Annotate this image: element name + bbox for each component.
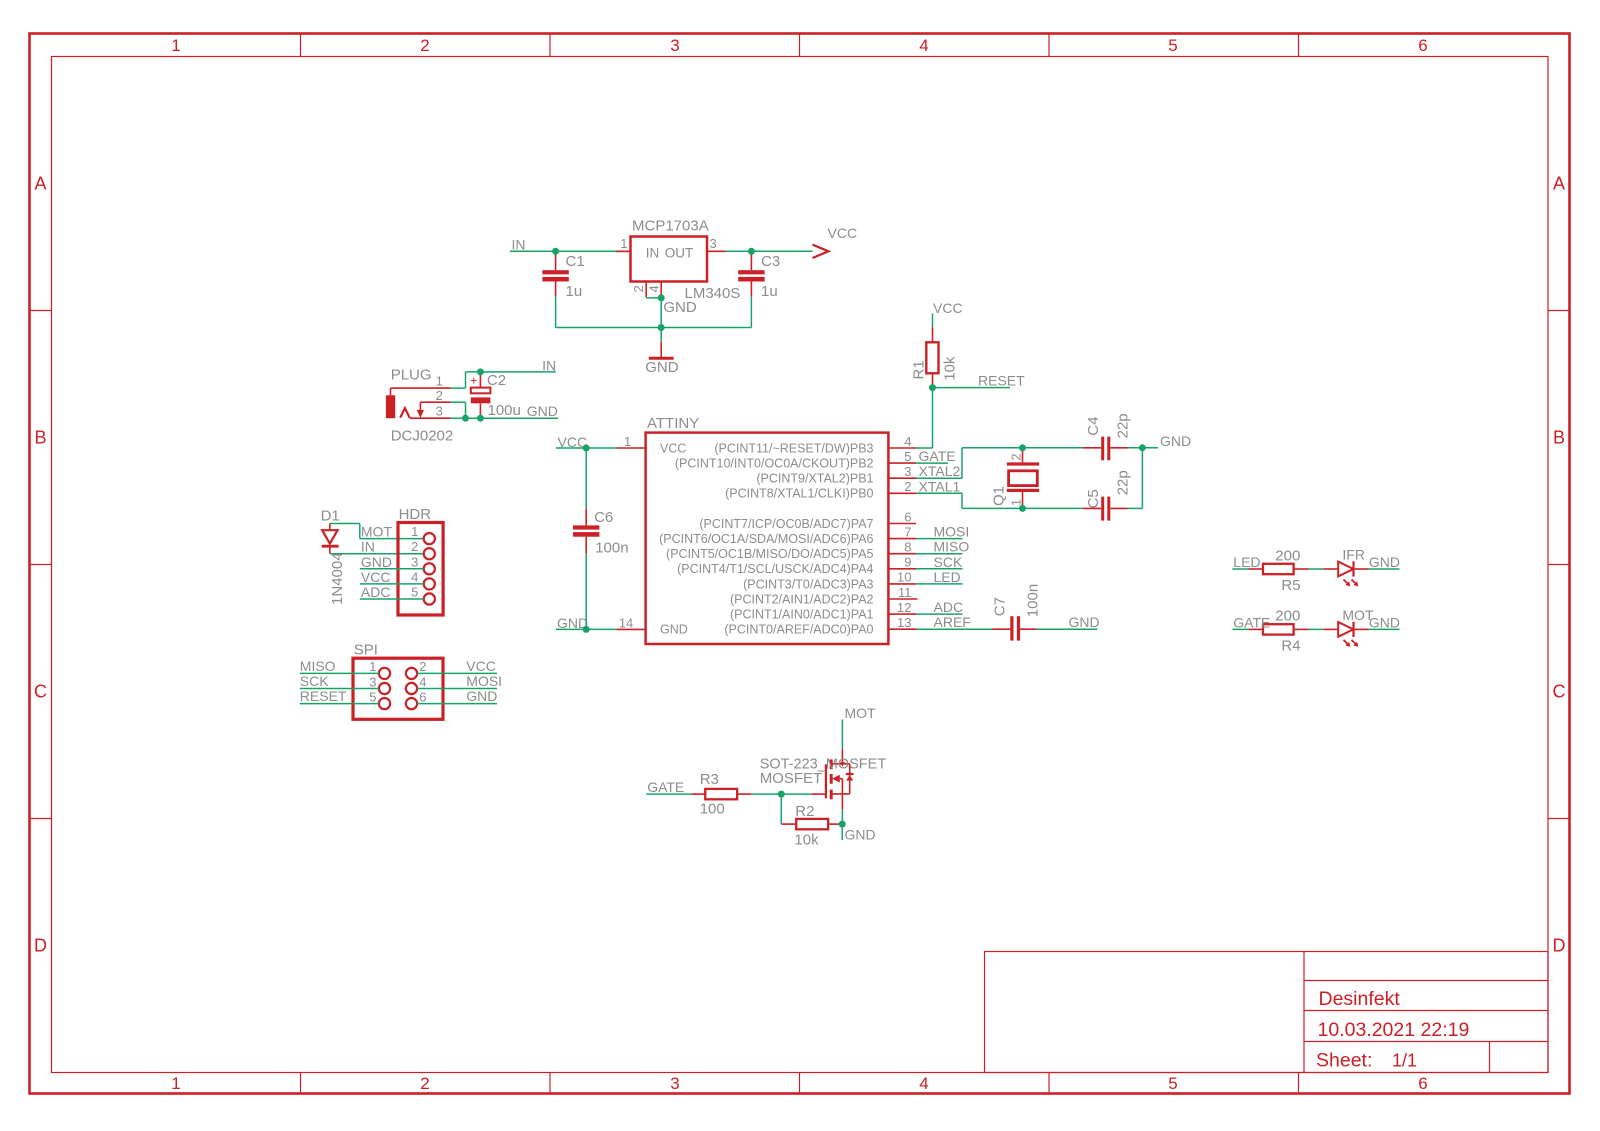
svg-text:(PCINT4/T1/SCL/USCK/ADC4)PA4: (PCINT4/T1/SCL/USCK/ADC4)PA4 bbox=[677, 562, 873, 576]
svg-text:6: 6 bbox=[1418, 36, 1427, 55]
svg-text:14: 14 bbox=[619, 615, 633, 630]
svg-text:(PCINT11/~RESET/DW)PB3: (PCINT11/~RESET/DW)PB3 bbox=[714, 441, 873, 455]
svg-text:3: 3 bbox=[670, 36, 679, 55]
svg-text:GND: GND bbox=[466, 688, 497, 704]
svg-text:6: 6 bbox=[419, 689, 426, 704]
svg-text:D: D bbox=[1553, 936, 1566, 956]
svg-text:2: 2 bbox=[411, 539, 418, 554]
svg-text:10k: 10k bbox=[941, 356, 958, 381]
svg-text:MOT: MOT bbox=[361, 524, 393, 540]
svg-text:MISO: MISO bbox=[934, 539, 970, 555]
svg-text:22p: 22p bbox=[1115, 413, 1132, 438]
svg-text:VCC: VCC bbox=[558, 434, 588, 450]
svg-text:GATE: GATE bbox=[647, 779, 684, 795]
svg-text:SPI: SPI bbox=[354, 642, 378, 659]
svg-text:(PCINT10/INT0/OC0A/CKOUT)PB2: (PCINT10/INT0/OC0A/CKOUT)PB2 bbox=[675, 457, 874, 471]
svg-text:C3: C3 bbox=[761, 253, 780, 270]
svg-text:10.03.2021 22:19: 10.03.2021 22:19 bbox=[1318, 1019, 1470, 1041]
svg-text:(PCINT7/ICP/OC0B/ADC7)PA7: (PCINT7/ICP/OC0B/ADC7)PA7 bbox=[699, 517, 873, 531]
svg-text:4: 4 bbox=[904, 434, 911, 449]
svg-text:D: D bbox=[34, 936, 47, 956]
svg-text:1: 1 bbox=[624, 434, 631, 449]
svg-text:IN: IN bbox=[361, 539, 375, 555]
svg-text:R2: R2 bbox=[795, 803, 814, 820]
svg-text:3: 3 bbox=[904, 464, 911, 479]
svg-text:+: + bbox=[470, 373, 477, 387]
svg-text:GND: GND bbox=[645, 359, 679, 376]
svg-text:10: 10 bbox=[897, 570, 911, 585]
svg-text:GND: GND bbox=[663, 299, 697, 316]
svg-text:XTAL2: XTAL2 bbox=[919, 463, 961, 479]
svg-text:2: 2 bbox=[419, 659, 426, 674]
svg-text:HDR: HDR bbox=[399, 506, 432, 523]
svg-text:B: B bbox=[34, 428, 46, 448]
svg-text:D1: D1 bbox=[321, 508, 340, 525]
svg-text:100n: 100n bbox=[595, 540, 628, 557]
svg-text:1u: 1u bbox=[566, 283, 583, 300]
svg-text:C: C bbox=[1553, 682, 1566, 702]
svg-text:1: 1 bbox=[369, 659, 376, 674]
svg-text:IN: IN bbox=[542, 357, 556, 373]
svg-text:22p: 22p bbox=[1115, 470, 1132, 495]
svg-text:SCK: SCK bbox=[934, 554, 963, 570]
svg-text:IN: IN bbox=[646, 246, 660, 261]
svg-text:GATE: GATE bbox=[1233, 614, 1270, 630]
svg-text:100u: 100u bbox=[488, 402, 521, 419]
svg-text:R1: R1 bbox=[911, 360, 928, 379]
svg-text:Sheet:: Sheet: bbox=[1316, 1050, 1372, 1072]
svg-text:Q1: Q1 bbox=[991, 486, 1008, 506]
svg-text:MISO: MISO bbox=[300, 658, 336, 674]
svg-text:100: 100 bbox=[700, 801, 725, 818]
svg-text:SCK: SCK bbox=[300, 673, 329, 689]
svg-text:5: 5 bbox=[411, 585, 418, 600]
svg-text:(PCINT6/OC1A/SDA/MOSI/ADC6)PA6: (PCINT6/OC1A/SDA/MOSI/ADC6)PA6 bbox=[659, 532, 873, 546]
svg-text:PLUG: PLUG bbox=[391, 367, 432, 384]
svg-text:(PCINT2/AIN1/ADC2)PA2: (PCINT2/AIN1/ADC2)PA2 bbox=[730, 592, 874, 606]
svg-text:3: 3 bbox=[670, 1074, 679, 1093]
svg-text:B: B bbox=[1553, 428, 1565, 448]
svg-text:DCJ0202: DCJ0202 bbox=[391, 428, 454, 445]
svg-text:R3: R3 bbox=[700, 771, 719, 788]
svg-text:GND: GND bbox=[1069, 614, 1100, 630]
svg-text:1/1: 1/1 bbox=[1392, 1051, 1417, 1071]
svg-text:ADC: ADC bbox=[361, 584, 391, 600]
svg-text:100n: 100n bbox=[1025, 584, 1042, 617]
svg-text:4: 4 bbox=[411, 569, 418, 584]
svg-text:VCC: VCC bbox=[660, 441, 686, 455]
svg-text:4: 4 bbox=[647, 285, 662, 292]
svg-text:LED: LED bbox=[934, 569, 961, 585]
svg-text:3: 3 bbox=[369, 674, 376, 689]
svg-text:VCC: VCC bbox=[933, 300, 963, 316]
svg-text:C2: C2 bbox=[487, 372, 506, 389]
svg-text:2: 2 bbox=[436, 388, 443, 403]
svg-text:GND: GND bbox=[1369, 614, 1400, 630]
svg-text:9: 9 bbox=[904, 555, 911, 570]
svg-text:GND: GND bbox=[361, 554, 392, 570]
svg-text:13: 13 bbox=[897, 615, 911, 630]
svg-text:ADC: ADC bbox=[934, 599, 964, 615]
svg-text:IFR: IFR bbox=[1342, 547, 1365, 563]
svg-text:MOSFET: MOSFET bbox=[760, 770, 823, 787]
svg-text:200: 200 bbox=[1275, 608, 1300, 625]
svg-text:RESET: RESET bbox=[300, 688, 347, 704]
svg-text:OUT: OUT bbox=[665, 246, 694, 261]
svg-text:C5: C5 bbox=[1085, 489, 1102, 508]
svg-text:MCP1703A: MCP1703A bbox=[632, 218, 709, 235]
svg-text:1: 1 bbox=[620, 236, 627, 251]
svg-text:AREF: AREF bbox=[934, 614, 971, 630]
svg-text:4: 4 bbox=[419, 674, 426, 689]
svg-text:C6: C6 bbox=[594, 509, 613, 526]
svg-text:12: 12 bbox=[897, 600, 911, 615]
svg-text:VCC: VCC bbox=[361, 569, 391, 585]
svg-text:MOSI: MOSI bbox=[934, 524, 970, 540]
svg-text:2: 2 bbox=[420, 1074, 429, 1093]
svg-text:(PCINT9/XTAL2)PB1: (PCINT9/XTAL2)PB1 bbox=[756, 472, 873, 486]
svg-text:1u: 1u bbox=[761, 283, 778, 300]
svg-text:(PCINT8/XTAL1/CLKI)PB0: (PCINT8/XTAL1/CLKI)PB0 bbox=[725, 487, 873, 501]
svg-text:5: 5 bbox=[1168, 36, 1177, 55]
svg-text:2: 2 bbox=[1010, 454, 1024, 461]
svg-text:11: 11 bbox=[898, 585, 912, 600]
svg-text:7: 7 bbox=[904, 524, 911, 539]
svg-text:VCC: VCC bbox=[828, 225, 858, 241]
svg-text:1: 1 bbox=[411, 524, 418, 539]
svg-text:C4: C4 bbox=[1085, 417, 1102, 436]
svg-text:LED: LED bbox=[1233, 554, 1260, 570]
svg-text:GND: GND bbox=[660, 623, 688, 637]
svg-text:3: 3 bbox=[411, 554, 418, 569]
svg-text:R4: R4 bbox=[1281, 637, 1300, 654]
svg-text:4: 4 bbox=[919, 36, 928, 55]
svg-text:C1: C1 bbox=[566, 253, 585, 270]
svg-text:3: 3 bbox=[436, 404, 443, 419]
svg-text:IN: IN bbox=[512, 236, 526, 252]
svg-text:8: 8 bbox=[904, 540, 911, 555]
svg-text:MOT: MOT bbox=[845, 705, 877, 721]
svg-text:1: 1 bbox=[436, 374, 443, 389]
svg-text:5: 5 bbox=[904, 449, 911, 464]
svg-text:RESET: RESET bbox=[978, 372, 1025, 388]
svg-text:3: 3 bbox=[710, 236, 717, 251]
svg-text:A: A bbox=[1553, 174, 1565, 194]
svg-text:1N4004: 1N4004 bbox=[329, 552, 346, 605]
svg-text:C7: C7 bbox=[992, 597, 1009, 616]
svg-text:2: 2 bbox=[631, 285, 646, 292]
svg-text:VCC: VCC bbox=[466, 658, 496, 674]
svg-text:GND: GND bbox=[1160, 433, 1191, 449]
svg-text:5: 5 bbox=[369, 689, 376, 704]
svg-text:GATE: GATE bbox=[919, 448, 956, 464]
svg-text:1: 1 bbox=[171, 36, 180, 55]
svg-text:10k: 10k bbox=[794, 832, 819, 849]
svg-text:MOSI: MOSI bbox=[466, 673, 502, 689]
svg-text:6: 6 bbox=[1418, 1074, 1427, 1093]
svg-text:200: 200 bbox=[1275, 547, 1300, 564]
svg-text:4: 4 bbox=[919, 1074, 928, 1093]
svg-text:GND: GND bbox=[1369, 554, 1400, 570]
svg-text:XTAL1: XTAL1 bbox=[919, 478, 961, 494]
svg-text:R5: R5 bbox=[1281, 577, 1300, 594]
svg-text:GND: GND bbox=[527, 403, 558, 419]
svg-text:5: 5 bbox=[1168, 1074, 1177, 1093]
svg-text:A: A bbox=[34, 174, 46, 194]
svg-text:(PCINT3/T0/ADC3)PA3: (PCINT3/T0/ADC3)PA3 bbox=[743, 577, 873, 591]
svg-text:2: 2 bbox=[904, 479, 911, 494]
svg-text:6: 6 bbox=[904, 509, 911, 524]
svg-text:(PCINT0/AREF/ADC0)PA0: (PCINT0/AREF/ADC0)PA0 bbox=[724, 623, 873, 637]
svg-text:Desinfekt: Desinfekt bbox=[1319, 988, 1401, 1010]
svg-text:2: 2 bbox=[420, 36, 429, 55]
svg-text:GND: GND bbox=[845, 827, 876, 843]
svg-text:(PCINT5/OC1B/MISO/DO/ADC5)PA5: (PCINT5/OC1B/MISO/DO/ADC5)PA5 bbox=[666, 547, 873, 561]
svg-text:(PCINT1/AIN0/ADC1)PA1: (PCINT1/AIN0/ADC1)PA1 bbox=[730, 608, 874, 622]
svg-text:1: 1 bbox=[171, 1074, 180, 1093]
svg-text:ATTINY: ATTINY bbox=[647, 415, 699, 432]
svg-text:1: 1 bbox=[1010, 499, 1024, 506]
svg-text:C: C bbox=[34, 682, 47, 702]
